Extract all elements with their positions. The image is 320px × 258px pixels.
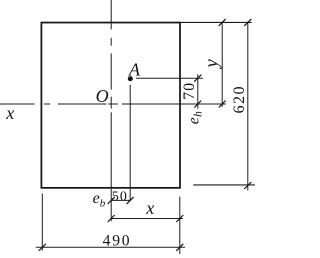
svg-text:70: 70 bbox=[181, 82, 198, 100]
svg-text:y: y bbox=[201, 59, 222, 70]
svg-text:x: x bbox=[5, 103, 14, 123]
svg-text:x: x bbox=[145, 198, 154, 218]
svg-text:50: 50 bbox=[112, 190, 128, 205]
svg-text:490: 490 bbox=[103, 233, 132, 250]
svg-text:O: O bbox=[96, 86, 109, 106]
svg-text:620: 620 bbox=[230, 85, 248, 113]
svg-text:A: A bbox=[128, 60, 141, 80]
